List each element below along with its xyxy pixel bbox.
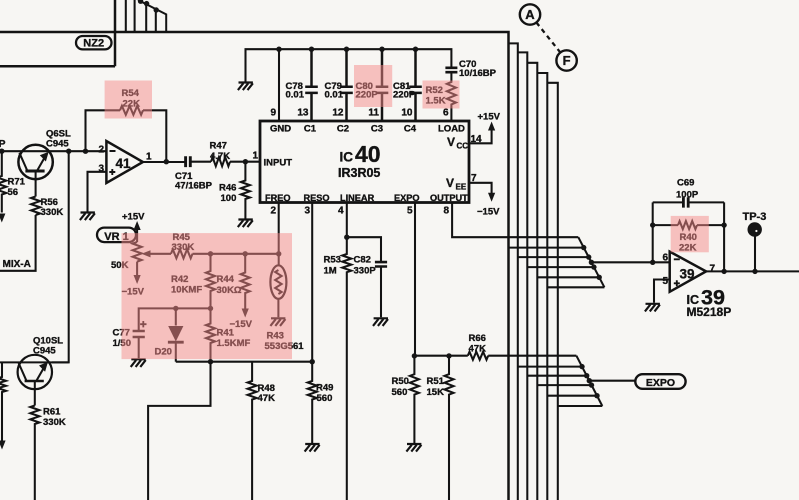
wire: tap v1 to diagonal (group 1) xyxy=(509,247,584,249)
resistor R41 xyxy=(206,308,215,361)
wire: bus line v6 xyxy=(547,83,558,500)
svg-text:EE: EE xyxy=(456,183,467,192)
svg-text:1: 1 xyxy=(146,152,152,163)
svg-text:LOAD: LOAD xyxy=(438,124,465,135)
svg-text:560: 560 xyxy=(392,387,408,398)
wire: bus line v4 xyxy=(527,63,537,500)
wire: EXPO line xyxy=(589,380,635,382)
pin numbers IC40 top xyxy=(270,108,449,119)
svg-text:41: 41 xyxy=(116,156,132,171)
svg-text:56: 56 xyxy=(8,187,19,198)
svg-text:GND: GND xyxy=(270,124,291,135)
svg-text:IC: IC xyxy=(340,150,354,165)
svg-text:C3: C3 xyxy=(371,124,383,135)
wire: pin 2 FREQ drop xyxy=(278,203,280,254)
wire: R54 feedback branch xyxy=(86,110,167,161)
svg-text:C82: C82 xyxy=(354,255,371,266)
wire: Q10 base to R61 xyxy=(34,382,36,406)
capacitor C78 xyxy=(305,49,318,121)
svg-text:8: 8 xyxy=(443,206,449,217)
svg-text:4: 4 xyxy=(338,206,344,217)
svg-text:IR3R05: IR3R05 xyxy=(338,166,380,180)
capacitor C77 xyxy=(133,331,145,337)
wire: mixer input line to op-amp 41 pin 2 xyxy=(0,150,106,152)
resistor R61 xyxy=(30,406,39,500)
wire: bus line v3 xyxy=(518,52,528,500)
svg-text:0.01: 0.01 xyxy=(286,90,305,101)
svg-text:330P: 330P xyxy=(354,266,377,277)
junction dots on diagonal (group 2) xyxy=(579,364,599,399)
svg-text:LINEAR: LINEAR xyxy=(340,193,375,203)
junction dots on diagonal xyxy=(138,0,159,13)
wire: R45 line to pin2 column xyxy=(193,253,279,255)
NZ2 block outline xyxy=(0,0,115,66)
svg-text:NZ2: NZ2 xyxy=(83,38,104,50)
wire: top bus vertical xyxy=(134,0,136,32)
junction nodes on node line xyxy=(208,359,315,364)
op-amp U39 xyxy=(670,252,706,292)
wire: bus line v2 xyxy=(509,43,518,500)
svg-text:13: 13 xyxy=(297,108,309,119)
ground (R50) xyxy=(406,444,421,452)
junction node (input line / Q10 column) xyxy=(66,149,71,154)
svg-text:C4: C4 xyxy=(404,124,417,135)
svg-text:−15V: −15V xyxy=(477,207,500,218)
wire: branch vertical from diagonal xyxy=(155,10,157,32)
junction dots on rail xyxy=(276,47,418,52)
resistor R47 xyxy=(211,157,230,166)
resistor (left edge, cut) xyxy=(0,362,6,440)
capacitor C81 xyxy=(409,49,422,121)
ground (op-amp 41 pin 3) xyxy=(80,213,95,221)
wire: R42 bottom node line to C77 xyxy=(139,308,211,330)
svg-text:330K: 330K xyxy=(43,417,66,428)
wire: op-amp 39 pin 5 to ground xyxy=(654,280,670,303)
wire: pin 5 EXPO drop xyxy=(414,203,416,357)
wire: tap v3 to diagonal (group 1) xyxy=(527,266,594,268)
svg-text:330K: 330K xyxy=(41,207,64,218)
capacitor C69 rail xyxy=(653,201,724,203)
transistor Q10 C945 xyxy=(18,355,52,389)
label VR1 xyxy=(97,228,136,243)
resistor R52 xyxy=(447,73,456,121)
svg-text:M5218P: M5218P xyxy=(687,305,732,319)
svg-text:7: 7 xyxy=(710,264,716,275)
ground (C77) xyxy=(131,359,146,367)
highlight VR1 area xyxy=(122,233,293,359)
svg-text:C69: C69 xyxy=(677,178,694,189)
wire: pin 3 RESO drop to node xyxy=(311,203,313,362)
svg-text:2: 2 xyxy=(270,206,276,217)
svg-text:R61: R61 xyxy=(43,407,61,418)
wire: op-amp 41 output line to IC40 input xyxy=(143,161,260,163)
highlight C80 xyxy=(354,65,392,107)
ground (C82) xyxy=(373,318,388,326)
wire: gather diagonal (group 1) xyxy=(578,237,604,287)
ground (op-amp 39 pin 5) xyxy=(645,304,660,312)
svg-text:560: 560 xyxy=(317,393,333,404)
junction dots on diagonal (group 1) xyxy=(581,245,602,280)
wiper arrow xyxy=(150,253,171,255)
test point TP-3 xyxy=(754,237,756,272)
ground (R43) xyxy=(270,318,285,326)
svg-text:4.7K: 4.7K xyxy=(210,151,230,162)
wire: feedback right vertical xyxy=(723,202,725,271)
svg-text:6: 6 xyxy=(662,253,668,264)
diode D20 xyxy=(175,308,177,325)
arrow down (left edge) xyxy=(0,441,6,450)
svg-text:C945: C945 xyxy=(46,139,69,150)
wire: tap v2 to diagonal (group 2) xyxy=(518,366,582,368)
svg-text:C1: C1 xyxy=(304,124,317,135)
wire: gather diagonal (group 2) xyxy=(576,356,602,406)
junction nodes (R66 line) xyxy=(412,353,452,358)
junction node (TP-3) xyxy=(752,269,757,274)
capacitor C82 xyxy=(375,262,387,266)
capacitor C80 xyxy=(376,49,389,121)
-15V arrow xyxy=(488,193,495,202)
resistor R45 xyxy=(171,249,193,258)
resistor R42 xyxy=(206,254,215,309)
wire: tap v5 to diagonal end (group 1) xyxy=(547,286,604,288)
svg-text:3: 3 xyxy=(304,206,310,217)
svg-text:R66: R66 xyxy=(469,333,486,344)
highlight R40 xyxy=(671,216,709,252)
resistor R66 xyxy=(468,352,488,360)
junction node (output / R54) xyxy=(164,159,169,164)
svg-text:TP-3: TP-3 xyxy=(743,211,767,223)
label EXPO xyxy=(635,374,685,389)
svg-text:R53: R53 xyxy=(324,255,341,266)
junction nodes on R45 line xyxy=(208,251,282,256)
wire: tap v6 to diagonal end (group 2) xyxy=(558,405,603,407)
wire: tap v4 to diagonal (group 1) xyxy=(537,276,599,278)
svg-text:FREQ: FREQ xyxy=(265,193,291,203)
junction node (input pin1 / R46) xyxy=(243,159,248,164)
wire: jog down-left to bottom edge xyxy=(148,362,210,500)
capacitor C79 xyxy=(340,49,353,121)
node F xyxy=(556,50,576,70)
resistor R50 xyxy=(410,356,419,443)
svg-text:14: 14 xyxy=(471,134,483,145)
wire: output line to right edge xyxy=(706,270,799,272)
svg-text:R71: R71 xyxy=(8,177,26,188)
svg-text:9: 9 xyxy=(270,108,276,119)
wire: dashed link A to F xyxy=(536,23,560,53)
svg-text:10/16BP: 10/16BP xyxy=(459,68,497,79)
svg-text:0.01: 0.01 xyxy=(325,90,344,101)
svg-text:RESO: RESO xyxy=(304,193,330,203)
junction node (input line / R54 branch) xyxy=(83,149,88,154)
resistor R54 xyxy=(120,106,143,115)
wire: top bus vertical xyxy=(125,0,127,32)
capacitor C71 xyxy=(186,156,191,167)
svg-text:+15V: +15V xyxy=(478,112,501,123)
wire: bus line v5 xyxy=(537,73,547,500)
svg-text:40: 40 xyxy=(355,141,381,167)
svg-text:V: V xyxy=(447,135,455,149)
resistor R44 with -15V arrow xyxy=(241,254,250,309)
svg-text:39: 39 xyxy=(680,267,695,282)
svg-text:10: 10 xyxy=(401,108,413,119)
wire: pin 8 OUTPUT drop and run to bus diagonal xyxy=(452,203,578,238)
svg-text:R51: R51 xyxy=(427,376,445,387)
arrow -15V (pot bottom) xyxy=(134,275,141,284)
svg-text:C945: C945 xyxy=(33,346,56,357)
wire: feedback left vertical xyxy=(652,202,654,262)
svg-text:15K: 15K xyxy=(427,387,445,398)
svg-text:47K: 47K xyxy=(469,344,487,355)
svg-text:EXPO: EXPO xyxy=(394,193,420,203)
wire: bypass ground rail above IC40 xyxy=(246,49,452,81)
svg-text:5: 5 xyxy=(407,206,413,217)
wire: column down to Q10 emitter xyxy=(52,151,69,362)
svg-text:7: 7 xyxy=(471,173,477,184)
junction nodes xyxy=(173,306,213,311)
pin numbers IC40 bottom xyxy=(270,206,449,217)
svg-text:A: A xyxy=(525,7,535,22)
wire: R66 line from pin5 node across bus xyxy=(414,355,576,357)
svg-text:R50: R50 xyxy=(392,376,409,387)
transistor Q6 C945 xyxy=(18,145,52,179)
wire: diagonal bus feed xyxy=(138,0,166,32)
svg-text:1: 1 xyxy=(252,151,258,162)
resistor R49 xyxy=(308,362,317,443)
wire: tap v4 to diagonal (group 2) xyxy=(537,384,591,386)
svg-text:R46: R46 xyxy=(219,183,236,194)
svg-text:2: 2 xyxy=(98,145,104,156)
wire: node line D20/R41/R48/R49 xyxy=(176,361,312,363)
ground (R46) xyxy=(238,220,253,228)
svg-text:C2: C2 xyxy=(337,124,349,135)
wire: op-amp 41 pin 3 to ground xyxy=(88,172,107,212)
svg-text:12: 12 xyxy=(332,108,344,119)
svg-text:47/16BP: 47/16BP xyxy=(175,181,213,192)
wire: C82 branch xyxy=(347,237,381,261)
svg-text:P: P xyxy=(0,138,6,150)
svg-text:MIX-A: MIX-A xyxy=(3,259,31,270)
svg-text:F: F xyxy=(563,53,571,68)
junction node (pin 6) xyxy=(650,260,655,265)
svg-text:EXPO: EXPO xyxy=(646,377,675,389)
+15V arrow xyxy=(488,122,495,131)
wire: summed line to IC39 pin 6 xyxy=(591,261,669,263)
highlight R54 xyxy=(105,81,152,119)
arrow down (R71 lower end) xyxy=(0,214,5,223)
capacitor C70 xyxy=(445,68,457,72)
svg-text:5: 5 xyxy=(662,276,668,287)
svg-text:47K: 47K xyxy=(258,393,276,404)
svg-text:100P: 100P xyxy=(676,190,699,201)
svg-text:INPUT: INPUT xyxy=(264,158,293,169)
svg-text:11: 11 xyxy=(368,108,379,119)
potentiometer VR1 50K with +15V arrow xyxy=(136,230,138,243)
junction dots (feedback) xyxy=(650,222,727,274)
resistor R71 xyxy=(0,151,6,212)
svg-text:CC: CC xyxy=(457,142,469,151)
wire: branch vertical from diagonal xyxy=(145,4,147,32)
op-amp U40 IR3R05 box xyxy=(260,121,469,203)
wire: tap v5 to diagonal (group 2) xyxy=(547,395,597,397)
wire: main top bus line turning down as bus line v1 xyxy=(0,32,509,500)
svg-text:1M: 1M xyxy=(324,266,337,277)
resistor R56 xyxy=(31,197,40,216)
ground (rail left end) xyxy=(238,83,253,91)
highlight R52 xyxy=(423,81,460,109)
wire: tap v2 to diagonal (group 1) xyxy=(518,256,589,258)
junction node (pin4/C82) xyxy=(344,235,349,240)
wire: pin 7 Vee to -15V xyxy=(469,183,492,193)
node A xyxy=(520,4,540,24)
svg-text:220P: 220P xyxy=(393,90,416,101)
resistor R40 rail xyxy=(653,224,724,226)
label NZ2 xyxy=(76,36,112,49)
junction node (input line / R71) xyxy=(0,149,5,154)
svg-text:OUTPUT: OUTPUT xyxy=(430,193,468,203)
wire: pin 9 GND drop xyxy=(278,49,280,121)
resistor R46 xyxy=(241,162,250,219)
svg-text:R49: R49 xyxy=(316,383,333,394)
svg-text:3: 3 xyxy=(98,164,104,175)
thermistor R43 553G561 xyxy=(278,254,280,266)
resistor R51 xyxy=(445,356,454,500)
svg-text:+15V: +15V xyxy=(122,212,145,223)
wire: pin 4 LINEAR drop / R53 column xyxy=(342,203,351,500)
svg-text:100: 100 xyxy=(221,193,237,204)
svg-text:V: V xyxy=(446,176,454,190)
wire: R56 to MIX-A stub xyxy=(0,215,36,271)
svg-text:6: 6 xyxy=(443,108,449,119)
wire: tap v3 to diagonal (group 2) xyxy=(527,375,586,377)
pin labels IC40 bottom row xyxy=(265,193,468,203)
resistor R48 xyxy=(248,362,257,500)
wire: Q6 base to R56 xyxy=(35,172,37,197)
op-amp U41 xyxy=(106,141,142,183)
wire: pin 14 Vcc to +15V xyxy=(469,130,492,143)
ground (R49) xyxy=(305,444,320,452)
